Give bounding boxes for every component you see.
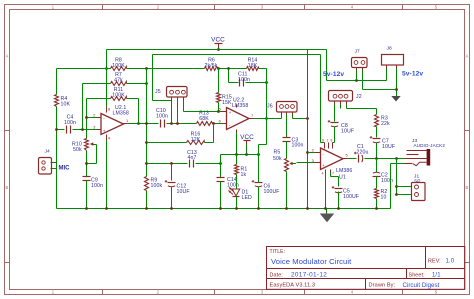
svg-text:J8: J8	[387, 46, 393, 52]
wire C6 col	[258, 155, 260, 183]
node out row junctions	[170, 122, 173, 125]
wire second bus	[153, 54, 321, 56]
wire U1 pin7 to C5	[330, 173, 332, 177]
node R7 junction	[145, 82, 148, 85]
capacitor C8	[331, 122, 339, 124]
resistor R3	[375, 115, 379, 127]
wire C14 col lower	[220, 182, 222, 209]
wire R2 lower	[376, 199, 378, 209]
node x307 junctions	[306, 151, 309, 154]
svg-text:100n: 100n	[156, 114, 168, 120]
audio jack J3	[405, 149, 431, 166]
resistor R15	[217, 93, 221, 103]
node U2.2 out junctions	[265, 117, 268, 120]
svg-text:LM358: LM358	[113, 110, 129, 116]
wire out segB	[365, 158, 397, 160]
wire C4 row left	[57, 129, 65, 131]
svg-text:2017-01-12: 2017-01-12	[291, 272, 327, 279]
resistor R7	[111, 82, 127, 86]
capacitor C13	[189, 160, 191, 168]
wire J8 pin2 down	[396, 69, 398, 97]
capacitor C2	[373, 171, 380, 174]
wire row154	[221, 154, 259, 156]
wire D1 lower	[236, 197, 238, 209]
svg-text:J6: J6	[267, 103, 273, 109]
node out junctions	[375, 157, 378, 160]
wire C13 row left	[147, 163, 188, 165]
wire top bus drop	[326, 50, 328, 81]
potentiometer R10	[85, 139, 97, 164]
wire J2 pin2 stub	[340, 105, 342, 109]
svg-text:B: B	[466, 185, 469, 190]
wire C7 to out node	[376, 143, 378, 159]
connector J2	[329, 91, 353, 105]
node J1 junctions	[395, 185, 398, 188]
wire x86 mid	[86, 151, 88, 177]
svg-text:10UF: 10UF	[177, 189, 190, 195]
svg-text:AUDIO-JACK2: AUDIO-JACK2	[414, 143, 446, 148]
wire J7 pin2 link	[362, 71, 364, 90]
wire x83 vertical	[82, 84, 84, 130]
svg-text:J2: J2	[356, 94, 362, 100]
svg-text:TITLE:: TITLE:	[270, 249, 286, 255]
wire supply row79	[327, 80, 387, 82]
wire x57 lower	[56, 107, 58, 209]
capacitor C4	[66, 126, 68, 134]
node supply junction	[355, 79, 358, 82]
svg-text:+: +	[229, 110, 232, 115]
wire R1 upper	[236, 155, 238, 165]
wire R11 row left	[87, 98, 111, 100]
wire J1 feed	[396, 159, 398, 195]
capacitor C5	[335, 188, 343, 190]
LED D1	[229, 188, 240, 197]
wire pin5 row	[219, 111, 222, 113]
svg-text:MIC: MIC	[59, 166, 71, 172]
svg-text:10UF: 10UF	[341, 129, 354, 135]
node R11 feedback junction	[137, 122, 140, 125]
wire VCC tap stem	[246, 145, 248, 155]
node C11 junction	[265, 81, 268, 84]
wire U2.2 out row	[254, 118, 282, 120]
svg-text:5v-12v: 5v-12v	[402, 71, 423, 78]
wire C3-R5	[286, 142, 288, 159]
wire R15 upper	[218, 69, 220, 93]
wire C2 upper	[376, 159, 378, 173]
svg-text:6: 6	[322, 139, 324, 143]
resistor R13	[197, 122, 213, 126]
svg-text:Drawn By:: Drawn By:	[369, 283, 396, 289]
wire J2 pin1 to C8	[334, 105, 336, 122]
svg-text:50k: 50k	[73, 147, 82, 153]
VCC symbol top	[211, 37, 225, 50]
wire R11 feedback	[127, 98, 139, 100]
VCC symbol mid	[240, 134, 254, 144]
wire R3 to C7	[376, 127, 378, 138]
wire row69 segA	[57, 68, 111, 70]
svg-text:100UF: 100UF	[264, 189, 280, 195]
wire ground rail	[57, 208, 391, 210]
svg-text:LM358: LM358	[232, 103, 248, 109]
svg-text:50k: 50k	[273, 156, 282, 162]
resistor R4	[55, 95, 59, 107]
capacitor C6	[255, 182, 263, 184]
wire pin2 row U2.1	[87, 117, 97, 119]
connector J1	[412, 183, 426, 201]
wire R16 row right	[205, 142, 214, 144]
svg-text:B: B	[6, 185, 9, 190]
svg-text:J5: J5	[155, 89, 161, 95]
wire C11 right	[246, 82, 267, 84]
wire R5 wiper row	[297, 162, 315, 164]
wire C12 lower	[171, 187, 173, 209]
wire row154 to out	[266, 119, 268, 145]
wire C5 lower	[338, 192, 340, 209]
svg-text:100UF: 100UF	[343, 194, 359, 200]
wire LM386 pin2 row	[308, 152, 315, 154]
wire J5 pin3 down	[183, 101, 185, 112]
node VCC junction on top bus	[217, 48, 220, 51]
wire C3 upper	[286, 115, 288, 138]
resistor R8	[111, 67, 127, 71]
svg-text:18K: 18K	[248, 63, 258, 69]
wire out segC	[397, 158, 407, 160]
capacitor C14	[217, 177, 225, 179]
svg-text:1/1: 1/1	[432, 273, 441, 279]
ground symbol main	[321, 209, 333, 222]
wire out row segB	[167, 123, 197, 125]
wire U2.1 pin4 to rail	[106, 141, 108, 209]
wire x86 upper	[86, 99, 88, 139]
svg-text:10K: 10K	[61, 102, 71, 108]
svg-text:100K: 100K	[112, 63, 125, 69]
capacitor C10	[160, 120, 162, 128]
wire U1 pin4 to rail	[325, 175, 327, 209]
wire row69 segD	[259, 68, 267, 70]
svg-text:EasyEDA V3.11.3: EasyEDA V3.11.3	[270, 283, 316, 289]
resistor R9	[145, 177, 149, 191]
resistor R16	[187, 141, 205, 145]
svg-text:22k: 22k	[381, 121, 390, 127]
wire J2 pin3 to R3	[346, 105, 348, 109]
node R15 junction	[217, 110, 220, 113]
svg-text:LM386: LM386	[336, 168, 352, 174]
svg-text:2k/5k: 2k/5k	[205, 63, 218, 69]
ground symbol near J8	[391, 96, 400, 102]
wire J6 pin1 drop	[281, 115, 283, 119]
capacitor C7	[373, 138, 381, 140]
svg-text:Sheet:: Sheet:	[409, 272, 425, 278]
svg-text:100n: 100n	[227, 183, 239, 189]
wire C13 row right	[196, 163, 221, 165]
node junctions row69	[105, 67, 108, 70]
wire R7 row right	[127, 83, 147, 85]
op-amp U2.2	[222, 105, 254, 133]
svg-text:15K: 15K	[222, 100, 232, 106]
capacitor C1	[358, 155, 360, 163]
wire supply drop x320	[320, 55, 322, 143]
svg-text:100n: 100n	[381, 178, 393, 184]
wire C14 col upper	[220, 155, 222, 178]
capacitor C12	[168, 182, 176, 184]
resistor R2	[375, 189, 379, 199]
connector J8	[382, 55, 404, 69]
svg-text:100n: 100n	[64, 120, 76, 126]
node C13 row junctions	[170, 162, 173, 165]
wire top VCC bus	[107, 49, 327, 51]
wire R5 lower	[286, 172, 288, 209]
wire C4 row right	[73, 129, 97, 131]
svg-text:4n7: 4n7	[188, 155, 197, 161]
svg-text:A: A	[466, 54, 469, 59]
svg-text:A: A	[6, 54, 9, 59]
svg-text:100k: 100k	[151, 183, 163, 189]
wire bus2 left drop	[152, 55, 154, 101]
svg-text:REV:: REV:	[428, 258, 441, 264]
svg-text:1k: 1k	[241, 172, 247, 178]
svg-text:10UF: 10UF	[382, 144, 395, 150]
capacitor C11	[239, 79, 241, 87]
capacitor C3	[283, 137, 291, 139]
svg-text:SP: SP	[414, 178, 421, 184]
wire C8 down	[334, 127, 336, 143]
node row154 junctions	[235, 153, 238, 156]
wire J1 pin1 row	[397, 186, 412, 188]
connector J5	[167, 87, 188, 101]
svg-text:1: 1	[327, 139, 329, 143]
svg-text:10: 10	[381, 195, 387, 201]
svg-text:VCC: VCC	[211, 37, 225, 44]
wire R1-D1	[236, 175, 238, 189]
svg-text:100n: 100n	[91, 183, 103, 189]
wire U2.1 pin8 to bus	[106, 50, 108, 107]
connector J6	[277, 102, 298, 115]
wire J5 pin1 down	[171, 101, 173, 124]
title block box	[267, 247, 465, 290]
wire x307 vertical	[307, 50, 309, 209]
connector J4 MIC	[39, 158, 57, 175]
wire jack tip	[397, 158, 405, 160]
wire out row segC	[213, 123, 222, 125]
svg-text:100n: 100n	[292, 143, 304, 149]
wire J7 pin1 down	[356, 71, 358, 81]
svg-text:+: +	[322, 163, 325, 168]
wire C2-R2	[376, 177, 378, 189]
wire out segA	[349, 158, 357, 160]
svg-text:100K: 100K	[112, 93, 125, 99]
wire x86 lower	[86, 181, 88, 209]
wire x145 lower	[146, 191, 148, 209]
svg-text:100n: 100n	[238, 77, 250, 83]
resistor R11	[111, 97, 127, 101]
wire J6 pin3 drop	[292, 115, 294, 119]
svg-text:J7: J7	[355, 48, 361, 54]
wire jack sleeve	[391, 163, 405, 165]
wire R16 row left	[147, 142, 187, 144]
wire R7 row left	[83, 83, 111, 85]
wire row69 segC	[219, 68, 247, 70]
resistor R14	[247, 67, 259, 71]
node R10 loop junction	[85, 162, 88, 165]
svg-text:1.0: 1.0	[446, 258, 455, 264]
node rail junctions	[85, 207, 378, 210]
wire J8 pin1 down	[386, 69, 388, 81]
node J8 pin2 junction	[395, 88, 398, 91]
op-amp U2.1	[97, 107, 129, 141]
svg-text:68K: 68K	[199, 116, 209, 122]
potentiometer R5	[285, 159, 297, 172]
connector J7	[352, 58, 368, 71]
wire row69 segB	[127, 68, 205, 70]
wire pin8 U2.2 down	[236, 133, 238, 155]
wire out row segA	[129, 123, 159, 125]
svg-text:47k: 47k	[114, 78, 123, 84]
node C4 row junctions	[55, 128, 58, 131]
svg-text:Voice Modulator Circuit: Voice Modulator Circuit	[271, 257, 352, 266]
svg-text:+: +	[103, 129, 106, 134]
svg-text:5v-12v: 5v-12v	[323, 71, 344, 78]
svg-text:7: 7	[332, 172, 334, 176]
wire R15 lower	[218, 103, 220, 112]
svg-text:Circuit Digest: Circuit Digest	[403, 282, 440, 289]
svg-text:8: 8	[331, 139, 333, 143]
svg-text:Date:: Date:	[270, 272, 283, 278]
wire J1 pin2 row	[397, 194, 412, 196]
node x145 junctions	[145, 122, 148, 125]
node pin2 junction	[85, 116, 88, 119]
svg-text:12K: 12K	[191, 137, 201, 143]
wire C12 upper	[171, 164, 173, 181]
op-amp U1 LM386	[315, 143, 349, 175]
svg-text:LED: LED	[242, 195, 253, 201]
wire C11 left	[228, 69, 230, 83]
resistor R6	[205, 67, 219, 71]
svg-text:4: 4	[322, 172, 324, 176]
svg-text:220u: 220u	[357, 150, 369, 156]
svg-text:J4: J4	[45, 149, 51, 155]
wire x57 upper	[56, 69, 58, 95]
capacitor C9	[83, 176, 91, 178]
wire R14 feedback drop	[266, 69, 268, 119]
resistor R1	[235, 165, 239, 175]
wire x145 vertical	[146, 69, 148, 177]
wire J5 pin2 down	[177, 101, 179, 124]
svg-text:U1: U1	[339, 174, 346, 180]
svg-text:R5: R5	[274, 150, 281, 156]
